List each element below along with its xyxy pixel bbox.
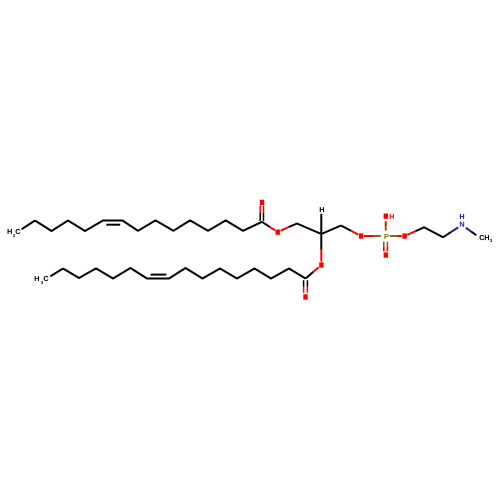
- atom: ester oxygen O2 (sn-2): [319, 262, 323, 267]
- atom: nitrogen N: [460, 222, 464, 227]
- wire: P-O4 bond red half: [398, 235, 402, 237]
- node: P=O double bond red halves: [383, 246, 385, 251]
- node: carbonyl C1'=O double bond (lower ester), black halves: [303, 280, 305, 286]
- wire: O4-CH2 bond black half + ethanolamine CH2-CH2: [416, 227, 443, 237]
- wire: glycerol C3H2-O3 bond black half: [341, 226, 351, 231]
- wire: C1-O1 ester bond red half: [270, 227, 275, 230]
- label: H of P-OH: [390, 214, 394, 219]
- atom: ester oxygen O1 (sn-1): [276, 230, 280, 235]
- node: carbonyl C1=O double bond (top ester), red halves: [259, 205, 261, 213]
- atom: phosphoester oxygen O4 (head group side): [402, 233, 406, 238]
- methyl label H3C (top chain terminus C15): [8, 229, 21, 237]
- wire: O1-CH2 bond red half: [281, 227, 289, 231]
- wire: O3-P bond red half: [364, 235, 374, 237]
- wire: glycerol C3H2-O3 bond red half: [351, 231, 358, 235]
- methyl label H3C (lower chain terminus C16'): [35, 276, 49, 284]
- wire: lower chain zigzag C1'..C9' with cis double bond C9'=C10' start: [63, 268, 306, 279]
- wire: N-CH3 bond blue half: [466, 228, 471, 232]
- atom: phosphorus P: [384, 234, 388, 239]
- wire: CH2-N bond blue half: [451, 227, 458, 232]
- wire: O1-CH2 bond black half + glycerol backbone C1H2-C2H: [289, 224, 341, 235]
- atom: carbonyl oxygen O (lower ester): [303, 294, 307, 299]
- label: H on glycerol C2: [320, 207, 324, 212]
- wire: lower chain double bond second line (C9'=C10'): [151, 274, 167, 276]
- wire: P-OH bond olive half: [385, 226, 387, 231]
- wire: top chain C15-C14 bond: [22, 221, 36, 230]
- atom: phosphoryl oxygen O (P=O): [384, 252, 388, 257]
- methyl label CH3 (N-methyl): [480, 235, 493, 242]
- atom: phosphoester oxygen O3: [359, 233, 363, 238]
- wire: C1-O1 ester bond black half: [262, 222, 270, 227]
- wire: C2-H bond: [320, 214, 322, 234]
- wire: top chain double bond second line (C10=C9): [106, 224, 120, 226]
- wire: O4-CH2 bond red half: [407, 231, 415, 235]
- atom: hydroxyl O of P-OH: [384, 214, 388, 219]
- wire: P-OH bond red half: [385, 221, 387, 226]
- wire: top chain zigzag C14..C9 with cis double bond C10=C9 start: [35, 220, 262, 231]
- wire: N-CH3 bond black half: [471, 231, 476, 235]
- label: H on N: [460, 214, 464, 219]
- wire: O3-P bond olive half: [374, 235, 381, 237]
- wire: lower chain C15'-C16' bond to methyl: [50, 269, 63, 277]
- wire: glycerol C2-O2 bond black half: [320, 234, 322, 250]
- node: carbonyl C1'=O double bond (lower ester), red halves: [303, 287, 305, 293]
- wire: O2-C1' bond black half: [306, 272, 314, 279]
- wire: glycerol C2-O2 bond red half: [320, 250, 322, 262]
- node: P=O double bond olive halves: [383, 242, 385, 247]
- wire: CH2-N bond black half: [443, 232, 451, 237]
- atom: carbonyl oxygen O (top ester): [260, 200, 264, 205]
- wire: O2-C1' bond red half: [313, 267, 318, 272]
- node: carbonyl C1=O double bond (top ester), black halves: [259, 213, 261, 221]
- wire: P-O4 bond olive half: [390, 235, 398, 237]
